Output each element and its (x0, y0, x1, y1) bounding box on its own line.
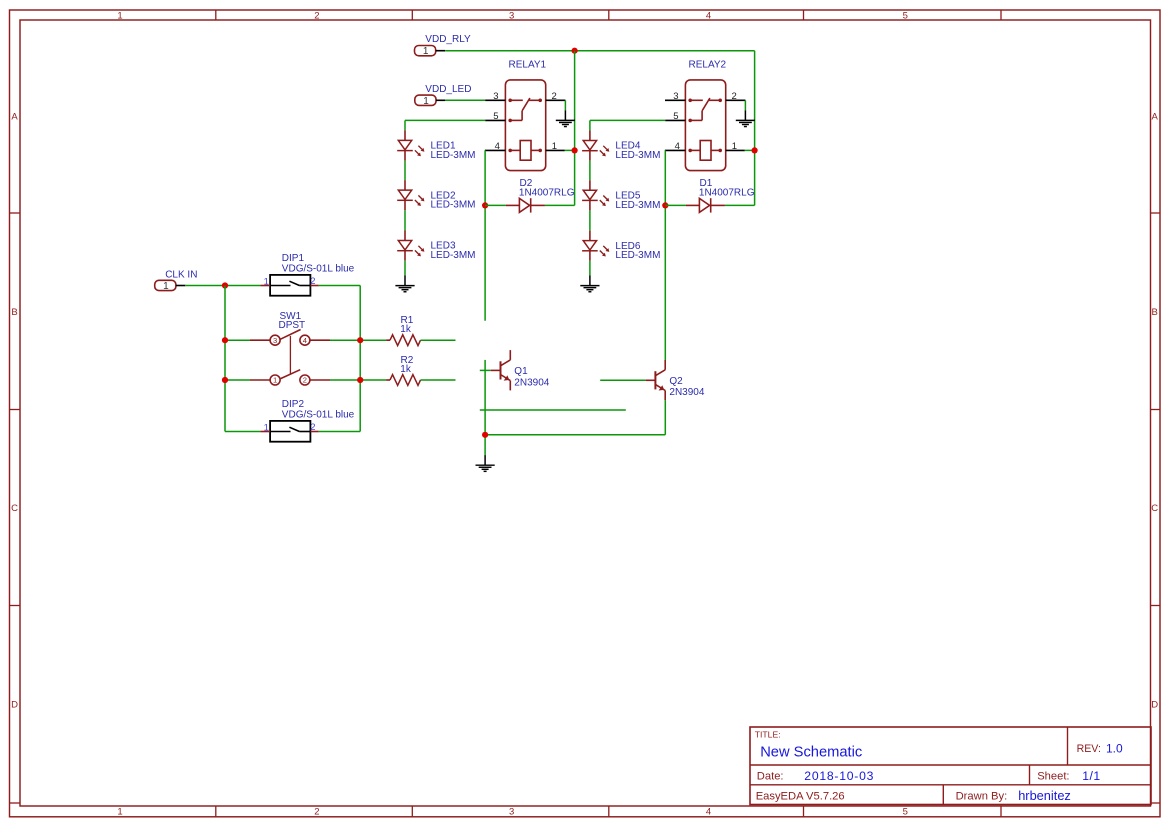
wire Q2 base (600, 379, 645, 381)
svg-text:4: 4 (706, 807, 711, 818)
svg-text:1: 1 (264, 423, 269, 434)
svg-text:VDG/S-01L blue: VDG/S-01L blue (282, 410, 355, 421)
junction SW1 pin 2 / right bus (357, 377, 363, 383)
svg-text:VDG/S-01L blue: VDG/S-01L blue (282, 264, 355, 275)
svg-text:3: 3 (509, 807, 514, 818)
RELAY1 pin 5 (485, 111, 505, 122)
svg-text:1: 1 (552, 141, 557, 152)
svg-text:4: 4 (706, 11, 711, 22)
svg-text:5: 5 (903, 807, 908, 818)
RELAY1 pin 4 (485, 141, 506, 152)
wire D1 cathode to VDD_RLY branch (725, 204, 755, 206)
wire DIP1 pin 2 to right bus (319, 285, 360, 287)
wire emitter bus vertical (484, 360, 486, 455)
wire RELAY1 pin 2 to ground (564, 100, 566, 110)
wire D2 anode (485, 204, 506, 206)
svg-text:2: 2 (314, 11, 319, 22)
svg-text:2018-10-03: 2018-10-03 (804, 769, 874, 783)
svg-text:1.0: 1.0 (1106, 741, 1123, 755)
svg-text:5: 5 (673, 111, 678, 122)
ground at RELAY2 pin 2 (736, 110, 755, 126)
diode D1 1N4007RLG (686, 178, 755, 213)
svg-text:2: 2 (552, 91, 557, 102)
svg-text:hrbenitez: hrbenitez (1018, 788, 1071, 803)
svg-text:4: 4 (495, 141, 500, 152)
svg-text:3: 3 (509, 11, 514, 22)
svg-text:1: 1 (732, 141, 737, 152)
wire RELAY1 pin 1 to VDD_RLY branch (565, 149, 575, 151)
wire LED6 to ground (589, 261, 591, 276)
wire VDD_RLY down to D2/RELAY1 pin1 (574, 51, 576, 206)
switch SW1 DPST (250, 311, 330, 385)
svg-text:1/1: 1/1 (1082, 769, 1100, 783)
svg-text:1: 1 (117, 11, 122, 22)
wire LED2 to LED3 (404, 210, 406, 230)
RELAY2 pin 4 (665, 141, 686, 152)
ground at RELAY1 pin 2 (556, 110, 575, 126)
svg-text:LED-3MM: LED-3MM (615, 250, 660, 261)
RELAY2 pin 3 (665, 91, 685, 102)
RELAY2 pin 1 (726, 141, 745, 152)
resistor R1 1k (386, 315, 420, 346)
wire RELAY2 pin 1 to VDD_RLY branch (745, 149, 755, 151)
svg-text:LED-3MM: LED-3MM (615, 150, 660, 161)
svg-text:Date:: Date: (757, 771, 784, 783)
svg-text:D: D (1151, 700, 1158, 711)
transistor Q2 2N3904 (646, 360, 705, 400)
svg-text:2N3904: 2N3904 (514, 377, 549, 388)
wire SW1 pin 4 to R1 (330, 339, 386, 341)
relay RELAY2 (685, 60, 726, 171)
junction emitter/ground node (482, 432, 488, 438)
switch DIP1 VDG/S-01L blue (260, 253, 354, 295)
wire R1 output (421, 339, 456, 341)
svg-text:RELAY2: RELAY2 (689, 60, 727, 71)
wire D1 anode (665, 204, 686, 206)
svg-text:4: 4 (675, 141, 680, 152)
svg-text:2: 2 (310, 422, 315, 433)
wire LED chain 2 top (589, 120, 591, 130)
RELAY1 pin 1 (546, 141, 565, 152)
transistor Q1 2N3904 (491, 350, 550, 390)
svg-text:2: 2 (303, 376, 307, 385)
wire Q1 base stub (480, 369, 491, 371)
wire LED chain 1 top (404, 120, 406, 130)
svg-text:LED-3MM: LED-3MM (431, 250, 476, 261)
svg-text:3: 3 (273, 336, 277, 345)
RELAY1 pin 2 (546, 91, 566, 102)
svg-text:2: 2 (732, 91, 737, 102)
wire left bus CLK IN down to DIP2 (224, 286, 226, 432)
junction RELAY1 pin 1 (572, 147, 578, 153)
wire RELAY1 pin 4 down (484, 150, 486, 320)
svg-text:B: B (11, 307, 17, 318)
svg-text:1: 1 (117, 807, 122, 818)
LED LED3 (397, 231, 475, 262)
wire LED1 to LED2 (404, 161, 406, 181)
svg-text:DIP1: DIP1 (282, 253, 305, 264)
RELAY2 pin 5 (665, 111, 685, 122)
resistor R2 1k (386, 355, 420, 385)
diode D2 1N4007RLG (506, 178, 575, 213)
wire left bus to SW1 pin 3 (225, 339, 250, 341)
wire DIP2 pin 2 to right bus (319, 431, 360, 433)
relay RELAY1 (505, 60, 546, 171)
net flag VDD_LED (415, 84, 472, 107)
svg-text:CLK IN: CLK IN (165, 269, 197, 280)
svg-text:EasyEDA V5.7.26: EasyEDA V5.7.26 (756, 791, 845, 803)
RELAY1 pin 3 (485, 91, 505, 102)
LED LED1 (397, 130, 475, 161)
svg-text:D: D (11, 700, 18, 711)
svg-text:2: 2 (314, 807, 319, 818)
svg-text:1: 1 (273, 376, 277, 385)
wire RELAY2 pin 5 to LED chain (590, 119, 665, 121)
wire LED3 to ground (404, 261, 406, 276)
junction SW1 pin 1 node (222, 377, 228, 383)
wire RELAY1 pin 5 to LED chain (405, 119, 485, 121)
svg-text:Sheet:: Sheet: (1037, 771, 1069, 783)
wire R2 output (421, 379, 456, 381)
svg-text:Drawn By:: Drawn By: (956, 791, 1008, 803)
svg-text:4: 4 (303, 336, 307, 345)
svg-text:B: B (1152, 307, 1158, 318)
wire Q2 emitter to ground bus (485, 434, 665, 436)
svg-text:TITLE:: TITLE: (755, 730, 781, 740)
svg-text:2: 2 (310, 276, 315, 287)
svg-text:5: 5 (903, 11, 908, 22)
wire VDD_RLY horizontal (445, 50, 754, 52)
junction CLK IN node (222, 282, 228, 288)
wire CLK IN to DIP1 (185, 285, 260, 287)
svg-text:Q1: Q1 (514, 366, 528, 377)
svg-text:1: 1 (423, 46, 429, 57)
wire left bus to DIP2 pin 1 (225, 431, 260, 433)
junction D2 anode node (482, 202, 488, 208)
junction RELAY2 pin 1 (752, 147, 758, 153)
svg-text:C: C (11, 503, 18, 514)
svg-text:DPST: DPST (279, 320, 306, 331)
wire SW1 pin 2 to R2 (330, 379, 386, 381)
svg-text:DIP2: DIP2 (282, 399, 305, 410)
wire left bus to SW1 pin 1 (225, 379, 250, 381)
svg-text:RELAY1: RELAY1 (509, 60, 547, 71)
wire right bus DIP1 down to DIP2 (359, 286, 361, 432)
junction D1 anode node (662, 202, 668, 208)
ground below LED6 (580, 276, 599, 292)
wire VDD_LED to RELAY1 pin 3 (445, 99, 485, 101)
svg-text:1: 1 (163, 281, 169, 292)
switch DIP2 VDG/S-01L blue (260, 399, 354, 441)
svg-text:REV:: REV: (1077, 743, 1101, 755)
svg-text:LED-3MM: LED-3MM (615, 200, 660, 211)
svg-text:3: 3 (493, 91, 498, 102)
svg-text:1N4007RLG: 1N4007RLG (519, 188, 575, 199)
wire floating horizontal (480, 409, 626, 411)
ground main (476, 455, 495, 471)
LED LED4 (582, 131, 660, 162)
junction SW1 pin 3 node (222, 337, 228, 343)
svg-text:1: 1 (264, 277, 269, 288)
svg-text:New Schematic: New Schematic (760, 745, 862, 761)
RELAY2 pin 2 (726, 91, 746, 102)
ground below LED3 (395, 276, 414, 292)
svg-text:1k: 1k (400, 364, 412, 375)
svg-text:VDD_RLY: VDD_RLY (425, 34, 471, 45)
svg-text:3: 3 (673, 91, 678, 102)
svg-text:A: A (1152, 112, 1159, 123)
wire LED5 to LED6 (589, 210, 591, 230)
svg-text:1k: 1k (400, 324, 412, 335)
net flag VDD_RLY (415, 34, 472, 57)
svg-text:A: A (11, 112, 18, 123)
svg-text:1: 1 (423, 96, 429, 107)
svg-text:5: 5 (493, 111, 498, 122)
svg-text:Q2: Q2 (669, 376, 683, 387)
svg-text:LED-3MM: LED-3MM (431, 200, 476, 211)
wire D2 cathode to VDD_RLY branch (545, 204, 575, 206)
svg-text:LED-3MM: LED-3MM (431, 150, 476, 161)
LED LED2 (397, 180, 475, 211)
LED LED6 (582, 231, 660, 262)
svg-text:VDD_LED: VDD_LED (425, 84, 471, 95)
wire RELAY2 pin 2 to ground (744, 100, 746, 110)
wire Q2 emitter down (664, 400, 666, 435)
wire RELAY2 pin 4 down to Q2 collector (664, 150, 666, 360)
junction SW1 pin 4 / right bus (357, 337, 363, 343)
junction VDD_RLY / RELAY1 branch (572, 48, 578, 54)
net flag CLK IN (155, 269, 198, 292)
wire LED4 to LED5 (589, 161, 591, 181)
wire VDD_RLY down to D1/RELAY2 pin1 (754, 51, 756, 206)
svg-text:1N4007RLG: 1N4007RLG (699, 188, 755, 199)
svg-text:2N3904: 2N3904 (669, 387, 704, 398)
LED LED5 (582, 180, 660, 211)
svg-text:C: C (1151, 503, 1158, 514)
